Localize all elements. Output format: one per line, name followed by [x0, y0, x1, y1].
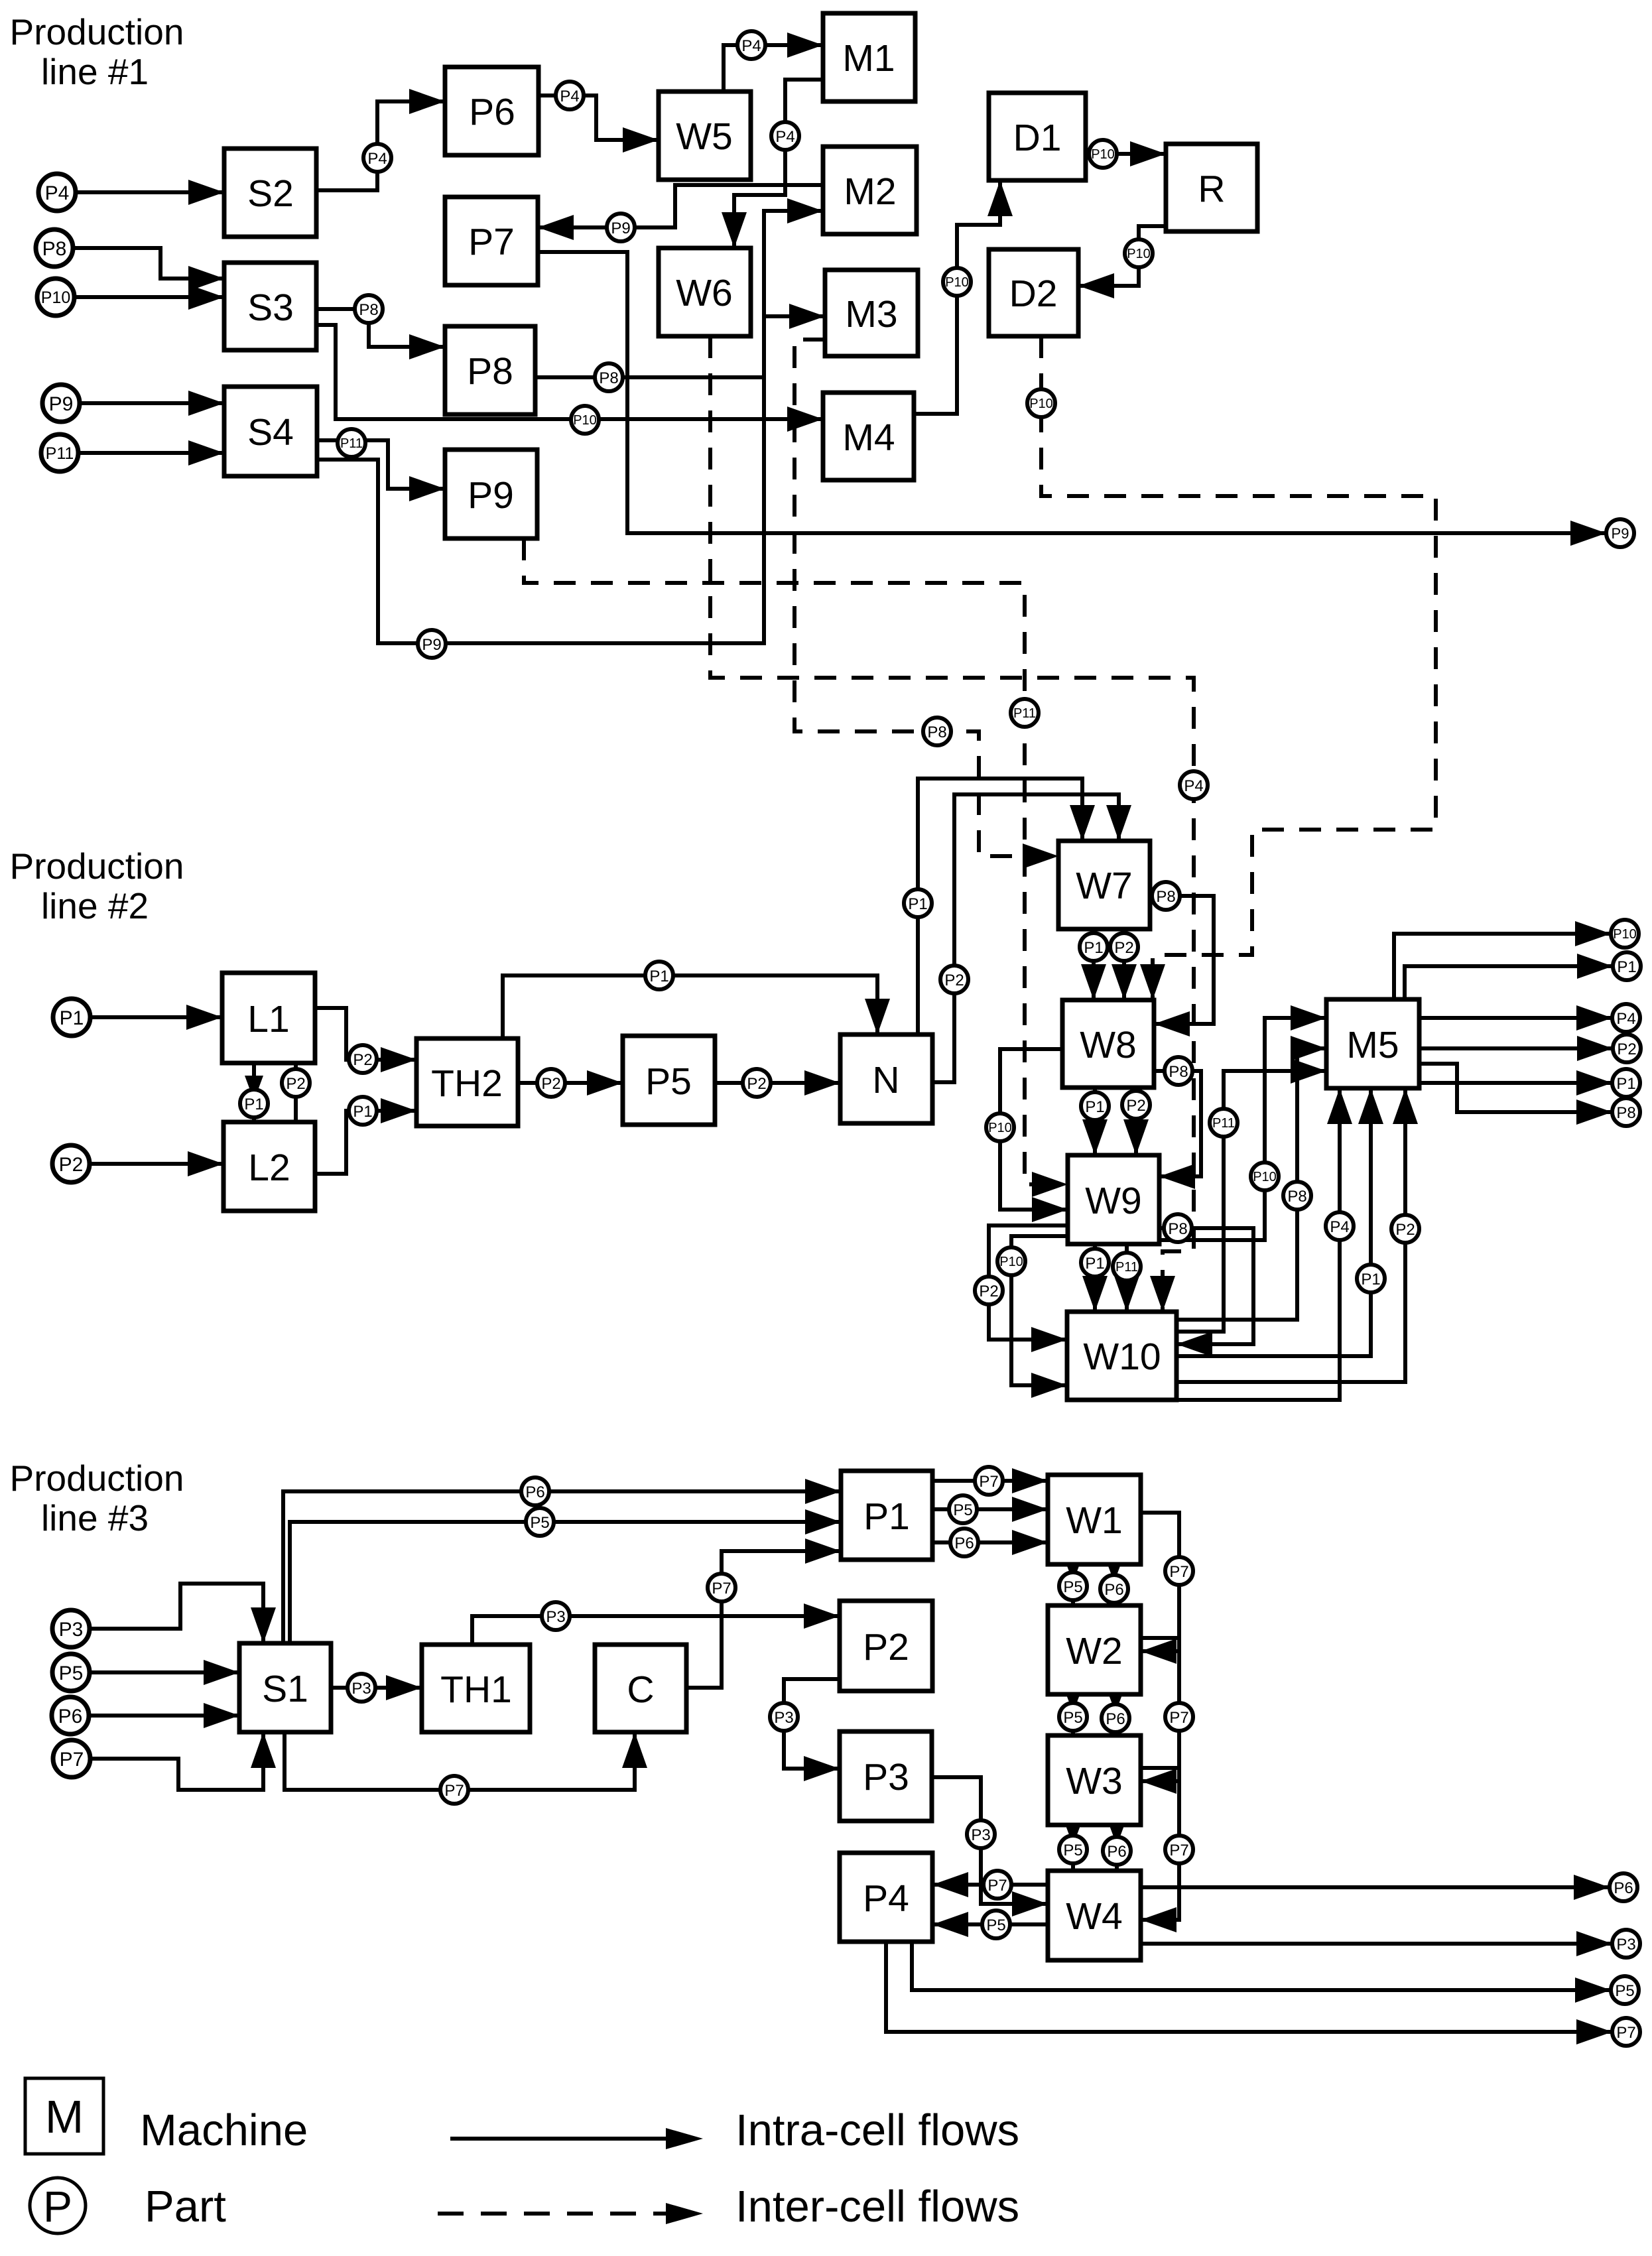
- svg-text:Production: Production: [10, 1458, 184, 1499]
- svg-text:line #3: line #3: [41, 1497, 149, 1538]
- part label P4 on W5-M1: [737, 31, 765, 59]
- machine box P4 machine: [840, 1853, 932, 1942]
- svg-text:P7: P7: [60, 1749, 84, 1771]
- part label P8 on W10-M5: [1283, 1182, 1311, 1210]
- wire P1 input to L1: [90, 1005, 222, 1030]
- svg-text:P4: P4: [367, 150, 387, 168]
- title Production line 2: [10, 846, 184, 926]
- part label input P3: [52, 1610, 90, 1647]
- svg-text:TH1: TH1: [440, 1668, 512, 1711]
- svg-text:P3: P3: [774, 1709, 793, 1727]
- wire W8 to W9 right loop (P8): [1154, 1071, 1201, 1189]
- wire S1 to C (P7): [285, 1732, 647, 1790]
- svg-text:P2: P2: [59, 1154, 84, 1176]
- svg-text:P10: P10: [1029, 397, 1053, 411]
- part label P6 on W2-W3: [1102, 1704, 1129, 1732]
- svg-text:P1: P1: [1085, 1255, 1104, 1273]
- part label output P10: [1611, 920, 1639, 948]
- wire W10 to M5 (P11): [1176, 1058, 1326, 1332]
- svg-text:P5: P5: [1615, 1982, 1634, 2000]
- machine box P5 machine: [623, 1036, 715, 1125]
- part label P11 on W10-M5: [1210, 1109, 1238, 1137]
- part label P10 on D2 dashed: [1027, 389, 1055, 417]
- part label P3 on S1-TH1: [348, 1674, 375, 1702]
- part label P7 on S1-C: [440, 1776, 468, 1804]
- part label P9 on M2-P7: [607, 214, 635, 241]
- svg-text:P: P: [43, 2182, 72, 2231]
- part label P10 on W9-M5: [1251, 1162, 1279, 1190]
- part label P5 on S1-P1: [526, 1508, 554, 1536]
- machine box P3 machine: [840, 1731, 932, 1821]
- svg-text:P4: P4: [45, 182, 70, 204]
- svg-text:Machine: Machine: [140, 2105, 308, 2155]
- svg-text:P8: P8: [599, 369, 618, 387]
- part label P8 on W9-W10: [1164, 1214, 1192, 1242]
- svg-text:P4: P4: [863, 1877, 909, 1920]
- wire inter-cell W6 to W10 (P4): [710, 336, 1194, 1312]
- svg-text:P11: P11: [46, 444, 74, 463]
- machine box D1: [989, 93, 1086, 180]
- wire M2 to P7 (P9): [538, 185, 823, 240]
- machine box S2: [224, 149, 316, 237]
- legend intra-cell flow arrow: [450, 2128, 703, 2149]
- svg-text:P6: P6: [954, 1535, 974, 1552]
- svg-text:L2: L2: [248, 1147, 290, 1189]
- part label input P11: [41, 434, 78, 471]
- wire S1 to TH1 (P3): [331, 1675, 422, 1700]
- part label P10 on W9-W10 left 2: [997, 1247, 1025, 1275]
- title Production line 3: [10, 1458, 184, 1538]
- svg-text:P5: P5: [530, 1514, 549, 1532]
- wire W1 to W2 right loop (P7): [1141, 1513, 1179, 1664]
- wire W7 to W8 right loop (P8): [1150, 896, 1214, 1036]
- svg-text:P2: P2: [541, 1075, 560, 1093]
- part label P4 on W6 dashed: [1180, 771, 1208, 799]
- svg-text:M4: M4: [842, 416, 895, 459]
- part label P3 on P2-P3: [770, 1703, 798, 1731]
- svg-text:P8: P8: [359, 301, 378, 319]
- svg-text:P7: P7: [468, 221, 515, 263]
- svg-text:P2: P2: [747, 1075, 766, 1093]
- machine box P9: [445, 450, 537, 538]
- part label input P9: [42, 385, 80, 422]
- wire W7 to W8 (P2): [1112, 929, 1137, 1000]
- svg-text:P5: P5: [986, 1916, 1005, 1934]
- svg-text:Production: Production: [10, 11, 184, 52]
- svg-text:P4: P4: [560, 88, 579, 105]
- wire riser branch to M3: [764, 304, 825, 329]
- svg-text:P8: P8: [467, 350, 513, 393]
- wire W2 to W3 (P5): [1064, 1688, 1082, 1735]
- svg-text:S1: S1: [262, 1668, 308, 1710]
- part label output P7: [1612, 2018, 1640, 2046]
- wire W9 to W10 right loop (P8): [1159, 1228, 1253, 1357]
- part label P6 on W3-W4: [1103, 1837, 1131, 1865]
- wire W2 to W3 (P6): [1106, 1688, 1125, 1735]
- svg-text:P3: P3: [546, 1608, 565, 1626]
- svg-text:P7: P7: [1616, 2024, 1635, 2042]
- wire W4 to P3 output: [1141, 1931, 1612, 1956]
- svg-text:P1: P1: [1085, 1098, 1104, 1116]
- svg-text:line #1: line #1: [41, 51, 149, 92]
- wire N to W7 (P1): [918, 779, 1095, 1034]
- svg-text:P9: P9: [422, 636, 441, 654]
- wire W4 to P4 (P5): [932, 1912, 1048, 1937]
- legend machine symbol: [25, 2078, 103, 2154]
- part label P10 on S3-M4: [571, 406, 599, 434]
- part label P7 on W1-W2 loop: [1165, 1557, 1193, 1585]
- part label P2 between L2-L1: [282, 1069, 310, 1097]
- wire inter-cell D2 to W8 (P10): [1041, 336, 1436, 1000]
- wire W10 to M5 bottom (P2): [1176, 1088, 1418, 1382]
- svg-text:Intra-cell flows: Intra-cell flows: [735, 2105, 1019, 2155]
- wire M5 to P1 output 2: [1419, 1070, 1612, 1096]
- svg-text:P8: P8: [1156, 888, 1175, 906]
- svg-text:P5: P5: [953, 1501, 972, 1519]
- svg-text:W1: W1: [1066, 1499, 1123, 1542]
- part label output P1: [1613, 952, 1641, 980]
- machine box W6: [659, 248, 751, 336]
- wire TH1 to P2 (P3): [472, 1603, 840, 1645]
- svg-text:P10: P10: [41, 288, 70, 307]
- svg-text:P1: P1: [353, 1103, 372, 1121]
- part label P4 on M1-W6: [771, 122, 799, 150]
- part label P11 on S4-P9box: [338, 429, 365, 457]
- wire P7 input to S1: [90, 1732, 276, 1790]
- part label P2 on W7-W8 2: [1110, 933, 1138, 961]
- svg-text:P10: P10: [1127, 247, 1151, 261]
- svg-text:P1: P1: [1617, 958, 1636, 976]
- svg-text:P2: P2: [1114, 939, 1133, 957]
- svg-text:P9: P9: [49, 393, 74, 415]
- legend part symbol: [30, 2178, 86, 2233]
- svg-text:P4: P4: [1184, 777, 1203, 795]
- svg-text:P4: P4: [1330, 1218, 1349, 1236]
- wire P6 input to S1: [89, 1703, 239, 1728]
- machine box P2 machine: [840, 1601, 932, 1691]
- wire P5 input to S1: [90, 1660, 239, 1685]
- svg-text:M3: M3: [845, 293, 897, 336]
- wire C to P1 (P7): [686, 1538, 841, 1688]
- wire S4 to P9 box (P11): [317, 440, 445, 501]
- svg-text:TH2: TH2: [431, 1062, 503, 1105]
- svg-text:Inter-cell flows: Inter-cell flows: [735, 2182, 1019, 2231]
- part label input P10: [37, 279, 74, 316]
- wire W10 to M5 bottom (P4): [1176, 1088, 1352, 1400]
- wire TH2 to P5 (P2): [518, 1070, 623, 1096]
- part label output P1 2: [1612, 1069, 1640, 1097]
- machine box W9: [1068, 1155, 1159, 1244]
- part label P7 on C-P1: [708, 1574, 735, 1601]
- svg-text:P7: P7: [712, 1580, 731, 1598]
- part label P4 on W10-M5: [1326, 1212, 1354, 1240]
- part label output P5: [1611, 1976, 1639, 2004]
- wire P10 input to S3: [74, 284, 224, 310]
- wire P2 to P3 (P3): [784, 1679, 840, 1781]
- svg-text:P2: P2: [1395, 1221, 1415, 1239]
- wire L2 to L1 (P2): [286, 1063, 305, 1122]
- svg-text:D2: D2: [1009, 273, 1058, 315]
- part label input P7: [53, 1740, 90, 1777]
- svg-text:P6: P6: [58, 1706, 83, 1727]
- svg-text:D1: D1: [1013, 117, 1062, 159]
- part label input P8: [36, 229, 73, 267]
- wire W9 to W10 (P1): [1082, 1244, 1108, 1312]
- part label output P4: [1612, 1004, 1640, 1032]
- wire P11 input to S4: [78, 440, 224, 466]
- part label P7 on P1-W1: [975, 1467, 1003, 1495]
- svg-text:P10: P10: [999, 1255, 1023, 1269]
- svg-text:P5: P5: [1063, 1578, 1082, 1596]
- wire P8 box join riser: [535, 375, 764, 379]
- machine box R: [1166, 144, 1257, 231]
- svg-text:P2: P2: [286, 1075, 305, 1093]
- wire W8 to W9 left loop (P10): [1000, 1049, 1068, 1222]
- part label P2 on L1-TH2: [349, 1045, 377, 1073]
- part label P8 on M3 dashed: [923, 718, 951, 745]
- svg-text:P9: P9: [1612, 525, 1629, 542]
- wire P6 to W5 (P4): [539, 95, 659, 153]
- svg-text:P7: P7: [987, 1877, 1007, 1895]
- svg-text:P1: P1: [863, 1495, 910, 1538]
- svg-text:W6: W6: [676, 272, 733, 314]
- machine box W3: [1048, 1735, 1141, 1825]
- part label P1 between L1-L2: [240, 1090, 268, 1117]
- svg-text:P7: P7: [1169, 1563, 1188, 1581]
- machine box L2: [223, 1122, 315, 1211]
- wire W9 to W10 (P11): [1114, 1244, 1139, 1312]
- part label P4 on S2-P6: [363, 144, 391, 172]
- part label P6 on P1-W1: [950, 1529, 978, 1556]
- svg-text:P2: P2: [944, 971, 964, 989]
- svg-text:P1: P1: [908, 895, 927, 913]
- part label P4 on P6-W5: [556, 82, 584, 109]
- wire W10 to M5 bottom (P1): [1176, 1088, 1383, 1356]
- machine box D2: [989, 249, 1078, 336]
- part label output P6: [1610, 1873, 1637, 1901]
- machine box S4: [224, 387, 317, 476]
- wire W8 to W9 (P1): [1082, 1088, 1108, 1155]
- wire P8 input to S3: [73, 248, 224, 291]
- wire W3 to W4 right loop (P7): [1141, 1768, 1179, 1932]
- svg-text:P1: P1: [1084, 939, 1103, 957]
- wire W3 to W4 (P5): [1064, 1820, 1082, 1871]
- svg-text:P2: P2: [1126, 1097, 1145, 1115]
- wire P4 to P7 output: [886, 1942, 1612, 2044]
- machine box L1: [222, 973, 315, 1063]
- svg-text:P10: P10: [573, 413, 597, 428]
- wire P1 to W1 (P6): [932, 1530, 1048, 1555]
- part label P9 on final output: [1606, 519, 1634, 547]
- machine box TH1: [422, 1645, 530, 1732]
- wire P5 to N (P2): [715, 1070, 840, 1096]
- part label P8 on S3-P8box: [355, 295, 383, 323]
- wire inter-cell M3 to W7 (P8): [794, 340, 1058, 869]
- part label P7 on W2-W3 loop: [1165, 1703, 1193, 1731]
- machine box S3: [224, 263, 316, 350]
- part label P2 on P5-N: [743, 1069, 771, 1097]
- wire W7 to W8 (P1): [1081, 929, 1106, 1000]
- svg-text:P11: P11: [1115, 1260, 1138, 1275]
- part label P6 on S1-P1: [521, 1477, 549, 1505]
- title Production line 1: [10, 11, 184, 92]
- wire S3 to P8 box (P8): [316, 309, 445, 359]
- wire P3 to W4 (P3): [932, 1777, 1048, 1916]
- part label P2 on N-W7: [940, 966, 968, 993]
- wire M5 to P1 output: [1405, 954, 1613, 999]
- wire W9 to W10 left loop (P2): [989, 1225, 1068, 1352]
- svg-text:P6: P6: [1614, 1879, 1633, 1897]
- svg-text:P1: P1: [649, 968, 668, 985]
- svg-text:P9: P9: [468, 474, 514, 517]
- machine box M4: [823, 393, 914, 480]
- svg-text:M: M: [45, 2091, 84, 2143]
- wire W4 to P6 output: [1141, 1875, 1610, 1900]
- part label output P8: [1612, 1098, 1640, 1126]
- svg-text:P8: P8: [1169, 1063, 1188, 1081]
- machine box W4: [1048, 1871, 1141, 1960]
- svg-text:P9: P9: [611, 219, 630, 237]
- wire S4 riser to M2 (P9): [317, 198, 823, 643]
- wire L1 to TH2 (P2): [315, 1008, 416, 1072]
- wire M5 to P8 output: [1419, 1064, 1612, 1125]
- part label P8 on P8box line: [595, 363, 623, 391]
- wire W4 to P4 (P7): [932, 1872, 1048, 1897]
- svg-text:line #2: line #2: [41, 885, 149, 926]
- wire M5 to P2 output: [1419, 1036, 1613, 1061]
- svg-text:P3: P3: [971, 1826, 990, 1844]
- svg-text:P7: P7: [1169, 1842, 1188, 1859]
- svg-text:P11: P11: [1013, 706, 1036, 721]
- svg-text:P6: P6: [1107, 1843, 1126, 1861]
- part label P7 on W3-W4 loop: [1165, 1836, 1193, 1863]
- svg-text:W7: W7: [1076, 865, 1133, 907]
- svg-text:W2: W2: [1066, 1630, 1123, 1672]
- wire W9 to M5 (P10): [1159, 1005, 1326, 1240]
- part label P8 on W7-W8: [1152, 882, 1180, 910]
- part label P9 on S4-M2: [418, 630, 446, 658]
- svg-text:W8: W8: [1080, 1024, 1137, 1066]
- svg-text:W5: W5: [676, 115, 733, 158]
- part label P1 on W10-M5: [1357, 1265, 1385, 1292]
- svg-text:P2: P2: [353, 1051, 372, 1069]
- part label P1 on W9-W10: [1081, 1249, 1109, 1277]
- part label P5 on W2-W3: [1059, 1703, 1087, 1731]
- svg-text:P7: P7: [979, 1473, 998, 1491]
- wire TH2 to N (P1): [503, 975, 890, 1038]
- wire P4 to P5 output: [912, 1942, 1611, 2003]
- wire W8 to W9 (P2): [1123, 1088, 1149, 1155]
- part label output P3: [1612, 1930, 1640, 1958]
- wire S1 to P1 (P5): [290, 1509, 841, 1643]
- svg-text:P1: P1: [60, 1007, 84, 1029]
- svg-text:P8: P8: [1287, 1188, 1306, 1206]
- part label P2 on TH2-P5: [537, 1069, 565, 1097]
- legend inter-cell flow arrow: [438, 2203, 703, 2224]
- svg-text:L1: L1: [247, 998, 289, 1040]
- svg-text:P2: P2: [863, 1626, 909, 1668]
- svg-text:P3: P3: [59, 1619, 84, 1641]
- svg-text:P7: P7: [1169, 1709, 1188, 1727]
- wire P2 input to L2: [90, 1151, 223, 1176]
- part label P3 on P3-W4: [967, 1820, 995, 1848]
- part label P10 on D1-R: [1089, 140, 1117, 168]
- wire W1 to W2 (P6): [1105, 1557, 1123, 1605]
- part label P5 on P1-W1: [949, 1495, 977, 1523]
- svg-text:P10: P10: [1253, 1170, 1277, 1184]
- machine box W1: [1048, 1475, 1141, 1564]
- svg-text:M5: M5: [1346, 1024, 1399, 1066]
- svg-text:P5: P5: [1063, 1709, 1082, 1727]
- svg-text:W4: W4: [1066, 1895, 1123, 1938]
- svg-text:P6: P6: [469, 91, 515, 133]
- svg-text:N: N: [872, 1059, 899, 1101]
- machine box N: [840, 1034, 932, 1123]
- machine box W7: [1058, 841, 1150, 929]
- wire L1 to L2 (P1): [245, 1063, 263, 1122]
- svg-text:S2: S2: [247, 172, 294, 215]
- svg-text:P4: P4: [775, 128, 794, 146]
- svg-text:P1: P1: [1616, 1075, 1635, 1093]
- svg-text:Production: Production: [10, 846, 184, 887]
- part label P6 on W1-W2: [1100, 1575, 1128, 1603]
- machine box S1: [239, 1643, 331, 1732]
- part label P1 on TH2-N: [645, 962, 673, 989]
- wire P3 input to S1: [90, 1584, 276, 1643]
- part label P8 on W8-W9: [1165, 1057, 1192, 1085]
- part label input P1: [53, 999, 90, 1036]
- svg-text:W9: W9: [1085, 1180, 1142, 1222]
- machine box P8: [445, 326, 535, 414]
- svg-text:P10: P10: [1091, 147, 1115, 162]
- wire P9 input to S4: [80, 391, 224, 416]
- svg-text:P1: P1: [244, 1096, 263, 1113]
- part label P2 on W9-W10 left: [975, 1277, 1003, 1304]
- svg-text:P10: P10: [945, 275, 969, 290]
- wire P1 to W1 (P5): [932, 1497, 1048, 1522]
- svg-text:P10: P10: [988, 1121, 1012, 1135]
- svg-text:P5: P5: [59, 1662, 84, 1684]
- svg-text:S4: S4: [247, 411, 294, 454]
- svg-text:P8: P8: [927, 723, 946, 741]
- machine box M3: [825, 270, 918, 356]
- svg-text:W10: W10: [1083, 1336, 1161, 1378]
- part label P1 on N-W7: [904, 889, 932, 917]
- part label input P4: [38, 174, 76, 211]
- wire S2 to P6 (P4): [316, 89, 445, 190]
- part label P5 on W4-P4: [982, 1911, 1010, 1938]
- svg-text:P8: P8: [1616, 1104, 1635, 1122]
- part label input P6: [52, 1697, 89, 1734]
- wire N to W7 (P2): [932, 794, 1131, 1082]
- svg-text:R: R: [1198, 168, 1225, 210]
- svg-text:P2: P2: [979, 1283, 998, 1300]
- svg-text:M1: M1: [842, 37, 895, 80]
- svg-text:P8: P8: [42, 238, 67, 260]
- svg-text:P5: P5: [1063, 1842, 1082, 1859]
- svg-text:Part: Part: [145, 2182, 226, 2231]
- wire W1 to W2 (P5): [1064, 1557, 1082, 1605]
- wire W5 to M1 (P4): [724, 32, 823, 92]
- part label P10 on M4-D1: [943, 268, 971, 296]
- machine box TH2: [416, 1038, 518, 1126]
- machine box M2: [823, 147, 917, 234]
- svg-text:P11: P11: [1212, 1116, 1235, 1131]
- wire M1 to W6 (P4): [722, 80, 823, 248]
- part label P2 on W10-M5: [1391, 1215, 1419, 1243]
- svg-text:P6: P6: [525, 1483, 544, 1501]
- wire W3 to W4 (P6): [1108, 1820, 1126, 1871]
